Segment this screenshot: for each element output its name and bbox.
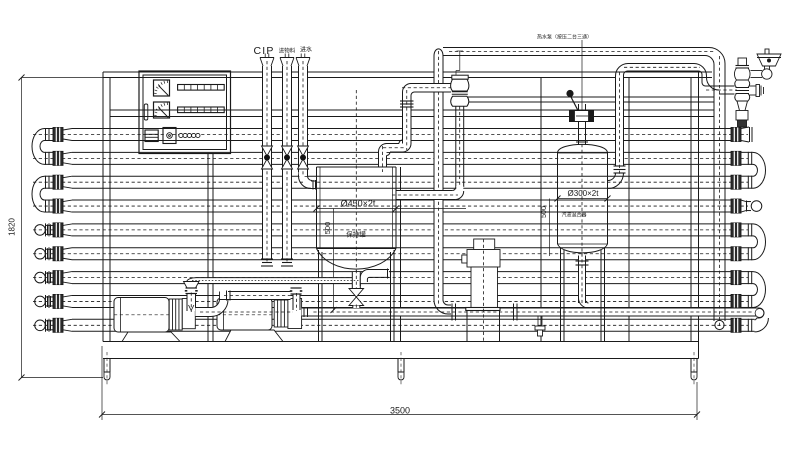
pump2 discharge stub — [302, 307, 312, 317]
frame column 2a — [207, 154, 209, 342]
panel segment bar 1 — [178, 85, 225, 91]
s-pipe tank to valve — [378, 84, 455, 173]
butterfly valve cip2 — [282, 146, 293, 169]
pump1 base — [118, 332, 184, 342]
bottom discharge pipe — [296, 304, 768, 332]
cip pipe3 elbow into tank — [299, 172, 317, 190]
pump2 base — [221, 330, 287, 342]
right port flange — [749, 85, 764, 97]
tube end right row9 coupling — [731, 318, 755, 332]
condensate trap boxes — [736, 111, 748, 128]
U-bend left rows3-4 — [32, 175, 72, 213]
panel button box — [163, 128, 176, 144]
butterfly valve cip1 — [262, 146, 273, 169]
dim tank 500 — [323, 209, 337, 314]
panel switch box — [145, 130, 158, 142]
holding tank shell — [317, 90, 397, 310]
steam valve stack — [734, 58, 750, 111]
svg-text:热水泵（按压二台三通）: 热水泵（按压二台三通） — [537, 34, 592, 41]
svg-text:3500: 3500 — [390, 406, 410, 416]
dim vessel D300 — [555, 189, 611, 202]
tank outlet pipe — [392, 186, 464, 200]
hot water header line a — [468, 96, 714, 98]
tube end right row4 ball — [731, 199, 762, 213]
cip funnel pipe 3 — [296, 54, 310, 182]
dim 1820 — [8, 75, 104, 381]
base rail lower — [103, 358, 699, 360]
frame column left inner — [109, 78, 111, 342]
base leg left — [104, 352, 110, 385]
vessel bottom pipe — [576, 254, 589, 309]
frame column 2b — [212, 154, 214, 342]
svg-text:500: 500 — [541, 206, 548, 218]
frame column vessel-right — [628, 78, 630, 342]
top frame line 2 — [103, 77, 712, 79]
tube ball cap left row9 — [35, 318, 72, 332]
U-bend left rows1-2 — [32, 128, 72, 166]
svg-text:CIP: CIP — [253, 45, 274, 57]
cip funnel pipe 2 — [280, 54, 294, 265]
panel segment bar 2 — [178, 107, 225, 113]
dim vessel 500 — [541, 199, 550, 257]
tube end right row1 cone — [731, 127, 752, 142]
vertical pump motor — [462, 239, 500, 342]
hot water header line b — [468, 101, 714, 103]
tube ball cap left row7 — [35, 271, 72, 285]
pump1 inlet riser — [184, 282, 200, 313]
U-bend right rows2-3 — [731, 151, 766, 189]
frame column right b — [698, 72, 700, 359]
vessel top nozzle — [576, 139, 588, 145]
vapor-liquid mixer vessel — [558, 144, 608, 262]
svg-text:进物料: 进物料 — [279, 47, 296, 55]
frame column right a — [690, 78, 692, 342]
cip funnel pipe 1 — [260, 54, 274, 265]
dim tank D450 — [314, 199, 467, 212]
U-bend right rows7-8 — [731, 271, 765, 309]
frame column vessel-left — [540, 78, 542, 342]
tube ball cap left row8 — [35, 294, 72, 308]
pump2 inlet flange — [290, 288, 303, 311]
svg-text:500: 500 — [323, 222, 332, 235]
butterfly valve cip3 — [298, 146, 309, 169]
long header line c — [110, 109, 714, 111]
holding tank legs — [319, 250, 395, 342]
control panel box — [139, 71, 231, 154]
cip pipe 1 end flange — [261, 259, 273, 266]
svg-text:Ø300×2t: Ø300×2t — [568, 189, 600, 198]
vessel legs — [561, 248, 605, 342]
tube bank 9 rows — [33, 129, 748, 332]
tube ball cap left row5 — [35, 223, 72, 237]
pump2 coupling and casing — [274, 299, 301, 329]
hot water main top pipe and downcomer — [443, 48, 725, 330]
tank valve side pipe — [360, 269, 390, 287]
riser pipe with dome cap — [434, 49, 451, 314]
svg-text:汽液混合器: 汽液混合器 — [561, 212, 586, 219]
tank bottom valve — [349, 270, 364, 309]
pump1 suction line — [187, 278, 364, 286]
svg-text:Ø450×2t: Ø450×2t — [341, 199, 376, 209]
base rail upper — [103, 341, 699, 343]
frame column left outer — [102, 72, 104, 342]
U-bend right rows5-6 — [731, 223, 766, 261]
tube ball cap left row6 — [35, 247, 72, 261]
svg-text:1820: 1820 — [8, 218, 17, 236]
panel meter 1 — [154, 80, 170, 96]
panel handle — [144, 104, 148, 120]
svg-text:进水: 进水 — [300, 46, 312, 54]
cip pipe 2 end flange — [281, 259, 293, 266]
frame column tank-right — [400, 167, 402, 342]
base leg right — [691, 352, 697, 385]
pump1 motor — [114, 298, 169, 333]
pressure regulator mushroom — [751, 49, 782, 79]
angle seat valve — [451, 51, 469, 193]
vessel inlet downpipe — [607, 72, 626, 189]
pump2 motor — [217, 298, 272, 330]
top frame line 1 — [103, 71, 712, 73]
pump1 discharge pipe — [195, 291, 293, 317]
drain valve fitting — [535, 316, 545, 336]
long header line d — [110, 116, 714, 118]
vessel feed lever valve — [567, 40, 594, 139]
panel indicator lamps — [179, 133, 200, 137]
svg-text:保持罐: 保持罐 — [346, 230, 366, 239]
pump1 coupling and casing — [169, 299, 195, 331]
dim 3500 — [99, 346, 700, 420]
base leg middle — [398, 352, 404, 385]
pipe run 2 top right — [616, 64, 738, 95]
panel meter 2 — [154, 102, 170, 118]
